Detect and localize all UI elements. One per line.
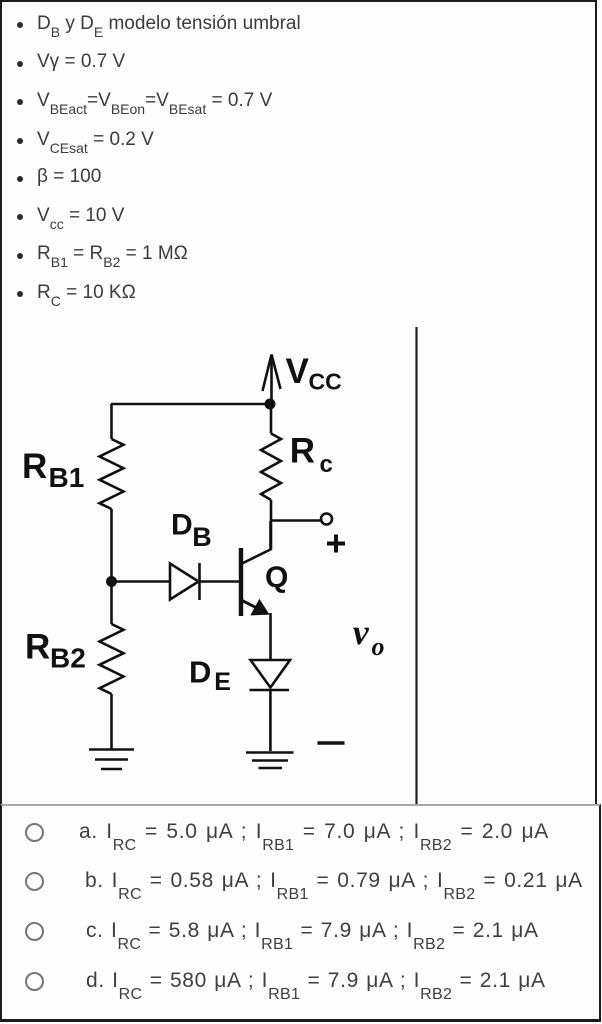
diode DB xyxy=(170,564,199,600)
svg-text:c: c xyxy=(320,451,333,478)
resistor RC xyxy=(261,434,281,501)
emitter arrowhead xyxy=(250,599,269,616)
bullet 2 xyxy=(17,61,23,67)
svg-text:B2: B2 xyxy=(50,643,86,674)
wire RB2 bottom xyxy=(110,694,113,750)
ground (RB2) xyxy=(89,748,134,751)
svg-text:B1: B1 xyxy=(49,462,85,493)
radio d xyxy=(25,972,44,991)
minus sign xyxy=(318,741,345,745)
output terminal circle xyxy=(321,514,332,525)
wire RB1 bottom to node xyxy=(110,509,113,582)
wire top horizontal xyxy=(111,403,271,406)
circuit schematic xyxy=(2,320,432,810)
radio a xyxy=(25,823,44,842)
VCC arrow shaft xyxy=(270,355,273,405)
bullet 4 xyxy=(17,138,23,144)
transistor Q emitter xyxy=(241,600,266,613)
wire emitter vertical xyxy=(269,613,272,660)
bullet 3 xyxy=(17,99,23,105)
plus sign xyxy=(327,542,345,546)
svg-text:CC: CC xyxy=(309,369,342,395)
wire output tap xyxy=(271,519,321,522)
svg-text:B: B xyxy=(192,522,212,552)
radio c xyxy=(25,922,44,941)
wire collector vertical xyxy=(270,500,273,550)
svg-text:R: R xyxy=(22,447,47,486)
bullet 5 xyxy=(17,176,23,182)
diode DE xyxy=(251,660,291,688)
resistor RB1 xyxy=(100,439,124,509)
bullet 1 xyxy=(17,22,23,28)
VCC arrowhead xyxy=(263,355,281,392)
bullet 7 xyxy=(17,253,23,259)
node VCC junction dot xyxy=(265,399,276,410)
wire node to DB xyxy=(112,580,171,583)
wire DE to ground xyxy=(269,690,272,751)
separator vertical line xyxy=(415,327,417,805)
transistor Q collector xyxy=(241,521,271,564)
resistor RB2 xyxy=(100,624,124,694)
transistor Q base bar xyxy=(239,548,243,616)
svg-text:D: D xyxy=(171,509,193,542)
wire DB to base xyxy=(200,580,242,583)
bullet 6 xyxy=(17,214,23,220)
svg-text:Q: Q xyxy=(265,561,288,594)
svg-text:R: R xyxy=(25,628,50,667)
svg-text:R: R xyxy=(290,432,315,471)
svg-text:V: V xyxy=(286,352,310,391)
svg-text:D: D xyxy=(189,655,211,690)
radio b xyxy=(25,872,44,891)
ground (emitter) xyxy=(246,751,294,754)
svg-text:o: o xyxy=(372,632,385,661)
svg-text:v: v xyxy=(353,612,370,652)
wire RB2 top xyxy=(110,582,113,625)
wire RC top xyxy=(270,404,273,434)
wire RB1 top xyxy=(110,404,113,439)
bullet 8 xyxy=(17,291,23,297)
node base junction dot xyxy=(106,576,117,587)
svg-text:E: E xyxy=(214,668,231,696)
